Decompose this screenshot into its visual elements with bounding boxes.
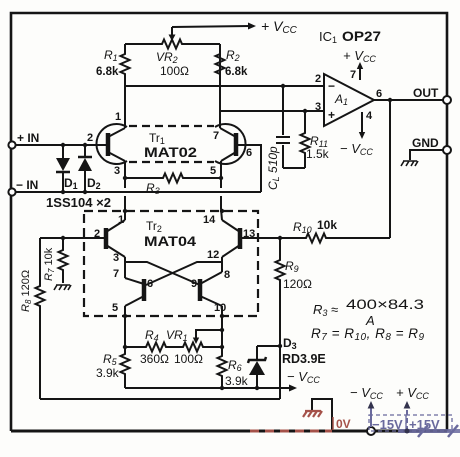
- pin 3 label: [315, 101, 321, 113]
- ground symbol R7: [54, 285, 71, 290]
- cross-couple wire left-to-right: [125, 262, 200, 285]
- pin 2 label MAT02: [87, 132, 93, 144]
- svg-text:1: 1: [118, 214, 124, 226]
- pin 6 base wire: [238, 145, 261, 192]
- svg-text:CL 510p: CL 510p: [266, 146, 281, 190]
- red dashed 0V net: [250, 430, 332, 433]
- svg-text:400×84.3: 400×84.3: [346, 296, 424, 312]
- svg-text:9: 9: [191, 278, 197, 290]
- node junction C1 top: [281, 84, 285, 88]
- svg-text:12: 12: [207, 249, 219, 261]
- wire pin13 to R10: [242, 237, 390, 239]
- junction dots diodes: [61, 143, 87, 194]
- terminal +IN: [8, 131, 39, 149]
- wiper arrow VR2: [169, 27, 176, 41]
- diode D1: [56, 145, 78, 192]
- svg-text:6: 6: [376, 88, 382, 100]
- junction dot R9 top: [278, 236, 282, 240]
- svg-text:6.8k: 6.8k: [225, 66, 248, 78]
- zener diode D3: [248, 346, 266, 388]
- label +15V: [406, 415, 452, 432]
- svg-text:14: 14: [203, 214, 216, 226]
- svg-text:+ IN: + IN: [17, 131, 39, 145]
- pin 6 label: [376, 88, 382, 100]
- resistor R10: [293, 218, 337, 243]
- wire +IN to base: [15, 144, 106, 146]
- wire C1-R11 bottom: [283, 167, 305, 169]
- pin 2 base wire MAT04: [40, 228, 104, 240]
- label -15V: [369, 415, 406, 432]
- wire MAT02 pin3 to MAT04 pin1: [118, 209, 127, 226]
- wire collector node to op-amp pin2: [125, 85, 324, 87]
- label +Vcc bottom: [396, 385, 429, 401]
- svg-text:10: 10: [214, 302, 226, 314]
- svg-text:−: −: [328, 79, 335, 93]
- label Tr1 MAT02: [144, 131, 197, 160]
- junction dot R7 top: [61, 236, 65, 240]
- resistor R1: [96, 44, 130, 86]
- transistor Q1b base bar: [234, 133, 239, 156]
- label -Vcc rail A: [287, 369, 320, 385]
- svg-text:− IN: − IN: [16, 178, 38, 192]
- transistor Q2a base bar: [104, 228, 109, 249]
- transistor Q2c base bar: [198, 279, 203, 301]
- transistor Q2b leads: [125, 278, 153, 306]
- pin 13 label: [243, 228, 255, 240]
- resistor R7: [43, 238, 68, 283]
- wire bottom supply rail: [11, 430, 447, 433]
- svg-text:3.9k: 3.9k: [225, 374, 249, 388]
- wire rail B: [40, 398, 280, 400]
- op-amp pin 4 -Vcc: [340, 110, 373, 157]
- svg-text:100Ω: 100Ω: [174, 352, 203, 366]
- svg-text:3: 3: [113, 252, 119, 264]
- op-amp A1: [324, 74, 374, 126]
- pin 3 emitter wire: [114, 161, 125, 209]
- svg-text:360Ω: 360Ω: [140, 352, 169, 366]
- MAT04 dashed box: [84, 211, 258, 316]
- wire MAT02 pin5 to MAT04 pin14: [203, 209, 224, 226]
- ground symbol at GND: [401, 161, 418, 166]
- wire -Vcc rail A: [125, 385, 297, 392]
- pin 2 label: [315, 73, 321, 85]
- wire op-amp output to OUT: [374, 99, 443, 101]
- wire 0V hook: [312, 399, 332, 431]
- wiper VR1: [193, 328, 224, 344]
- svg-text:2: 2: [87, 132, 93, 144]
- svg-text:MAT04: MAT04: [144, 234, 197, 249]
- transistor housing Tr1 left arc: [96, 124, 127, 164]
- resistor R8: [20, 238, 45, 399]
- svg-text:1: 1: [115, 111, 121, 123]
- svg-text:100Ω: 100Ω: [160, 64, 189, 78]
- transistor Q2a leads: [106, 220, 125, 257]
- wire collector rail top: [125, 43, 220, 45]
- wire R2 node corner: [219, 44, 221, 111]
- wire GND to ground: [410, 150, 443, 160]
- svg-text:3: 3: [114, 165, 120, 177]
- potentiometer VR2: [155, 40, 190, 79]
- svg-text:0V: 0V: [336, 417, 351, 431]
- transistor Q2b base bar: [142, 279, 147, 301]
- transistor Q1a base bar: [106, 133, 111, 156]
- junction dot R4 R5 pin5: [123, 345, 127, 349]
- svg-text:5: 5: [210, 165, 216, 177]
- pin 7 riser: [213, 86, 220, 142]
- MAT02 dashed top: [129, 125, 214, 127]
- svg-text:7: 7: [113, 268, 119, 280]
- svg-text:OUT: OUT: [413, 86, 439, 100]
- label -Vcc bottom: [350, 385, 383, 401]
- junction dots rail A: [220, 386, 259, 390]
- terminal -IN: [8, 178, 38, 196]
- svg-text:7: 7: [213, 130, 219, 142]
- resistor R11: [301, 111, 330, 168]
- label Tr2 MAT04: [144, 219, 197, 249]
- svg-text:6.8k: 6.8k: [96, 66, 119, 78]
- svg-text:OP27: OP27: [342, 28, 381, 44]
- svg-text:R7 10k: R7 10k: [43, 247, 56, 281]
- svg-text:7: 7: [350, 69, 356, 81]
- node junction R11 top: [303, 109, 307, 113]
- resistor R9: [276, 238, 313, 399]
- node junction feedback: [388, 98, 392, 102]
- svg-text:6: 6: [147, 278, 153, 290]
- svg-text:1.5k: 1.5k: [306, 147, 330, 161]
- label D3 RD3.9E: [282, 336, 326, 366]
- svg-text:5: 5: [112, 302, 118, 314]
- svg-text:10k: 10k: [317, 218, 337, 232]
- junction dot VR1 right: [220, 345, 224, 349]
- terminal 0V circle: [367, 427, 375, 435]
- svg-text:GND: GND: [412, 136, 439, 150]
- resistor R5: [96, 347, 130, 388]
- label 0V red: [333, 417, 351, 431]
- wire VR2 wiper to +Vcc: [172, 23, 256, 30]
- svg-text:1SS104 ×2: 1SS104 ×2: [46, 196, 111, 210]
- op-amp pin 7 +Vcc: [343, 48, 376, 81]
- transistor Q2c leads: [191, 272, 222, 306]
- pin 1 riser: [115, 86, 125, 128]
- svg-text:3: 3: [315, 101, 321, 113]
- svg-text:2: 2: [94, 228, 100, 240]
- svg-text:8: 8: [224, 269, 230, 281]
- wire D3 to R9 node: [257, 344, 282, 348]
- transistor Q1b leads: [220, 128, 236, 161]
- svg-text:R7 = R10, R8 = R9: R7 = R10, R8 = R9: [311, 326, 425, 343]
- svg-text:4: 4: [366, 110, 373, 122]
- label 1SS104x2: [46, 196, 111, 210]
- svg-text:3.9k: 3.9k: [96, 366, 120, 380]
- pin 5 emitter wire: [210, 161, 221, 209]
- wire -IN to pin6 node: [15, 191, 261, 193]
- resistor R2: [216, 44, 248, 128]
- svg-text:6: 6: [246, 147, 252, 159]
- svg-text:RD3.9E: RD3.9E: [282, 352, 326, 366]
- pin 10 wire: [214, 302, 226, 350]
- terminal OUT: [413, 86, 451, 104]
- label IC1 OP27: [319, 28, 381, 45]
- terminal GND: [412, 136, 451, 154]
- transistor Q1a leads: [108, 128, 125, 161]
- transistor housing Tr1 right arc: [215, 124, 246, 164]
- resistor R3: [125, 174, 221, 197]
- label +Vcc top: [261, 18, 298, 36]
- junction dots R3: [123, 176, 223, 180]
- pin 12 node wire: [207, 249, 230, 281]
- svg-text:2: 2: [315, 73, 321, 85]
- purple rail overlay: [398, 425, 460, 437]
- wire R2 node to op-amp pin3: [220, 110, 324, 112]
- transistor Q2d leads: [222, 220, 240, 257]
- svg-text:120Ω: 120Ω: [283, 277, 312, 291]
- diode D2: [78, 145, 101, 192]
- formula R3: [313, 296, 424, 328]
- MAT02 dashed bottom: [129, 161, 214, 163]
- ground symbol 0V red: [303, 411, 322, 417]
- potentiometer VR1: [166, 328, 221, 366]
- resistor R4: [125, 328, 172, 366]
- svg-text:MAT02: MAT02: [144, 145, 197, 160]
- pin 5 wire: [112, 302, 127, 347]
- resistor R6: [218, 350, 249, 388]
- pin 3 node wire: [113, 252, 125, 280]
- supply arrow -Vcc: [368, 401, 375, 427]
- capacitor C1: [266, 86, 290, 190]
- cross-couple wire right-to-left: [146, 262, 222, 285]
- formula R7 R8: [311, 326, 425, 343]
- svg-text:R8 120Ω: R8 120Ω: [20, 270, 33, 312]
- svg-text:+: +: [328, 108, 335, 122]
- transistor Q2d base bar: [238, 228, 243, 249]
- supply arrow +Vcc: [404, 401, 411, 431]
- wire feedback vertical: [389, 100, 391, 238]
